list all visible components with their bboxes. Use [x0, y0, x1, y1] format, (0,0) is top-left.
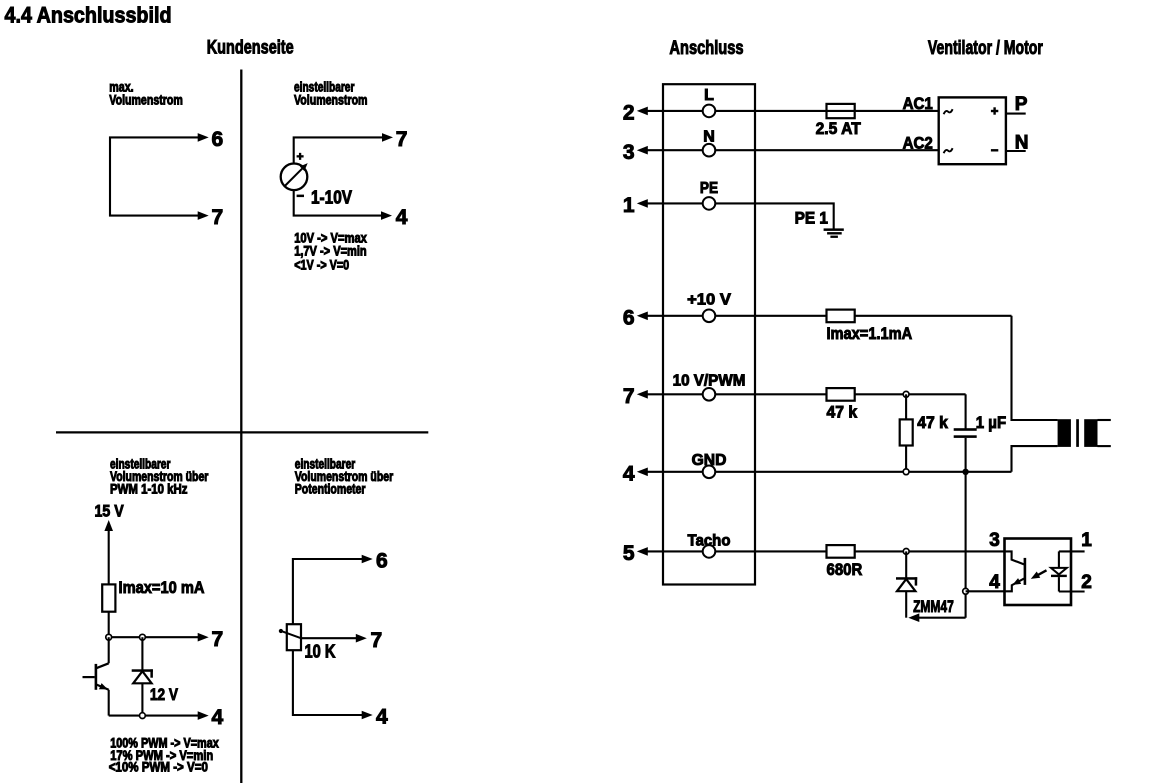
svg-text:2.5 AT: 2.5 AT [816, 119, 862, 138]
wire GND drop to zener return [965, 472, 967, 618]
svg-text:7: 7 [371, 629, 383, 652]
resistor 47 k (series) [827, 388, 855, 401]
junction node GND/capacitor (filled) [962, 469, 968, 475]
junction node pin4 branch [963, 588, 969, 594]
motor pin tilde AC1 [944, 109, 953, 114]
wire +10V down to plug top rail [1012, 316, 1058, 420]
zener diode ZMM47 [905, 551, 907, 577]
svg-text:6: 6 [376, 550, 388, 573]
polarity minus sign [297, 195, 304, 198]
svg-text:7: 7 [623, 385, 635, 408]
svg-text:<10% PWM -> V=0: <10% PWM -> V=0 [109, 760, 208, 775]
svg-text:4: 4 [623, 462, 635, 485]
svg-text:15 V: 15 V [95, 502, 125, 521]
polarity plus sign [297, 155, 304, 157]
motor pin tilde AC2 [944, 148, 953, 153]
junction node at transistor collector [106, 634, 112, 640]
plug output stub top [1098, 419, 1111, 421]
svg-text:5: 5 [623, 542, 635, 565]
terminal GND: screw contact circle [703, 466, 716, 479]
svg-text:GND: GND [692, 452, 727, 469]
svg-text:ZMM47: ZMM47 [913, 597, 954, 616]
optocoupler box U1 [1005, 539, 1072, 606]
svg-text:AC1: AC1 [903, 94, 933, 113]
wire emitter row to terminal 4 [109, 715, 199, 717]
resistor Imax=10 mA [102, 584, 115, 611]
zener diode 12 V [141, 637, 143, 669]
plug ferrite black block 1 [1058, 419, 1071, 447]
wire resistor to node [108, 612, 110, 638]
motor pin minus [991, 149, 998, 151]
terminal PE: wire through block [663, 202, 703, 204]
svg-text:L: L [704, 87, 714, 104]
svg-text:+10 V: +10 V [687, 292, 731, 309]
ground symbol (protective earth) [824, 228, 844, 231]
svg-text:12 V: 12 V [150, 685, 179, 704]
plug output stub bottom [1098, 445, 1111, 447]
terminal 10 V/PWM: screw contact circle [703, 388, 716, 401]
junction node above zener [140, 634, 146, 640]
svg-text:Imax=10 mA: Imax=10 mA [119, 578, 205, 597]
potentiometer 10 K [287, 624, 301, 650]
svg-text:PWM 1-10 kHz: PWM 1-10 kHz [110, 482, 188, 497]
wire bridge terminal 6 to 7 (max. Volumenstrom) [110, 137, 199, 215]
terminal N: screw contact circle [703, 144, 716, 157]
svg-text:47 k: 47 k [827, 402, 858, 421]
svg-text:Ventilator / Motor: Ventilator / Motor [928, 38, 1043, 59]
svg-text:N: N [1015, 132, 1029, 153]
wire source minus to terminal 4 [294, 190, 382, 216]
svg-text:10 K: 10 K [305, 641, 336, 661]
svg-text:7: 7 [396, 128, 408, 151]
svg-text:2: 2 [1081, 572, 1092, 593]
svg-text:1: 1 [623, 194, 635, 217]
junction node zener anode [140, 713, 146, 719]
svg-text:6: 6 [623, 306, 635, 329]
wire zener return with arrow [918, 617, 966, 619]
wire L terminal to motor AC1 [755, 110, 939, 112]
svg-text:3: 3 [623, 141, 635, 164]
wire +10V terminal to connector [755, 315, 1012, 317]
svg-text:4: 4 [212, 706, 224, 729]
svg-text:PE: PE [700, 180, 718, 197]
optocoupler phototransistor [1005, 551, 1025, 564]
svg-text:Kundenseite: Kundenseite [207, 37, 294, 58]
terminal Tacho: wire through block [663, 550, 703, 552]
wire pot top to terminal 6 [293, 559, 363, 624]
svg-text:1-10V: 1-10V [311, 187, 352, 207]
terminal GND: wire through block [663, 471, 703, 473]
svg-text:Tacho: Tacho [688, 533, 731, 550]
wire PE terminal to earth [755, 203, 834, 229]
wire Tacho terminal to optocoupler pin 3 [755, 550, 1005, 552]
resistor 47 k (shunt, vertical) [905, 394, 907, 419]
terminal L: wire through block [663, 110, 703, 112]
svg-text:6: 6 [212, 128, 224, 151]
divider vertical line (Kundenseite quadrants) [240, 70, 242, 783]
wire pot bottom to terminal 4 [293, 650, 363, 715]
svg-text:7: 7 [212, 628, 224, 651]
terminal 10 V/PWM: wire through block [663, 393, 703, 395]
terminal block rectangle [663, 84, 755, 584]
junction node PWM/47k [903, 391, 909, 397]
svg-text:AC2: AC2 [903, 133, 933, 152]
plug gap line [1076, 419, 1079, 447]
svg-text:1: 1 [1081, 530, 1092, 551]
capacitor 1 uF [965, 394, 967, 429]
wire GND terminal to plug bottom rail [755, 471, 1012, 473]
junction node tacho/zener [903, 549, 909, 555]
wire N terminal to motor AC2 [755, 149, 939, 151]
wire optocoupler pin 2 [1059, 590, 1085, 592]
svg-text:4: 4 [989, 572, 1000, 593]
wire source plus to terminal 7 [294, 137, 383, 163]
svg-text:1 µF: 1 µF [976, 413, 1006, 432]
voltage source 1-10V (variable) [281, 164, 308, 191]
terminal N: wire through block [663, 149, 703, 151]
motor pin plus [991, 110, 998, 112]
svg-text:Anschluss: Anschluss [669, 38, 743, 59]
wire motor output P [1006, 113, 1026, 115]
junction node GND/47k [903, 469, 909, 475]
divider horizontal line (Kundenseite quadrants) [56, 431, 428, 433]
svg-text:10 V/PWM: 10 V/PWM [673, 372, 746, 389]
svg-text:7: 7 [212, 206, 224, 229]
wire 10V/PWM terminal to filter [755, 393, 966, 395]
resistor 680R [827, 545, 855, 558]
optocoupler LED [1058, 551, 1060, 568]
wire optocoupler pin 1 [1059, 550, 1085, 552]
svg-text:Potentiometer: Potentiometer [295, 482, 366, 497]
terminal +10 V: screw contact circle [703, 310, 716, 323]
wire 15V supply arrow up [104, 520, 113, 531]
resistor Imax=1.1mA [827, 310, 855, 323]
svg-text:3: 3 [989, 530, 1000, 551]
terminal L: screw contact circle [703, 105, 716, 118]
svg-text:4: 4 [396, 206, 408, 229]
svg-text:Volumenstrom: Volumenstrom [109, 93, 183, 108]
terminal PE: screw contact circle [703, 197, 716, 210]
terminal Tacho: screw contact circle [703, 545, 716, 558]
svg-text:Volumenstrom: Volumenstrom [294, 93, 368, 108]
wire motor output N [1006, 150, 1026, 152]
fuse 2.5 AT [827, 104, 855, 118]
svg-text:<1V -> V=0: <1V -> V=0 [294, 257, 349, 272]
wire pot wiper to terminal 7 [301, 637, 357, 639]
svg-text:PE 1: PE 1 [795, 209, 828, 228]
svg-text:47 k: 47 k [917, 413, 948, 432]
svg-text:P: P [1015, 94, 1028, 115]
wire GND up to plug bottom rail [1012, 446, 1058, 472]
motor module box (Ventilator/Motor) [939, 97, 1006, 164]
svg-text:4.4 Anschlussbild: 4.4 Anschlussbild [5, 2, 172, 27]
wire node row to terminal 7 [109, 636, 199, 638]
svg-text:2: 2 [623, 102, 635, 125]
svg-text:4: 4 [376, 706, 388, 729]
svg-text:680R: 680R [827, 560, 863, 579]
plug ferrite black block 2 [1084, 419, 1097, 447]
wire pin 4 branch to optocoupler [966, 590, 1005, 592]
svg-text:Imax=1.1mA: Imax=1.1mA [827, 324, 913, 343]
optocoupler light arrow [1036, 570, 1047, 576]
svg-text:N: N [703, 128, 715, 145]
transistor Q1 (NPN) [108, 637, 110, 663]
terminal +10 V: wire through block [663, 315, 703, 317]
